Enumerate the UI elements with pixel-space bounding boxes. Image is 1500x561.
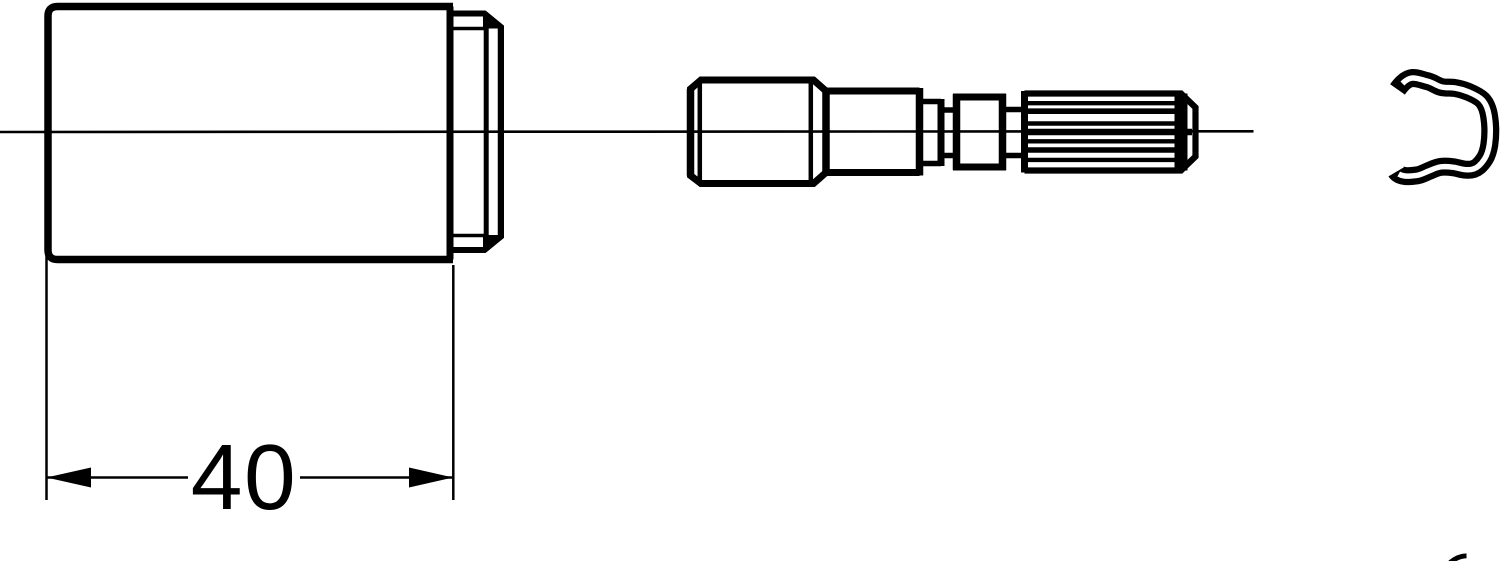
svg-text:40: 40 (191, 425, 297, 529)
